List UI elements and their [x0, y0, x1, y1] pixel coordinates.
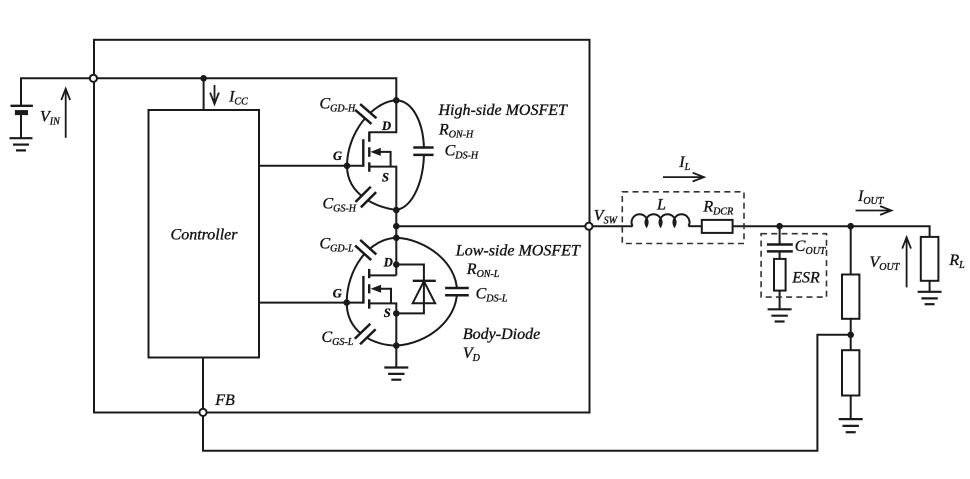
- node: output dot at Cout branch: [776, 223, 783, 230]
- resistor R_DCR: [702, 220, 733, 233]
- node: high-side gate dot: [344, 163, 351, 170]
- Q2 drain vertical: [395, 238, 397, 276]
- wire: output node to divider node: [780, 225, 851, 227]
- Q1 drain lead: [369, 100, 396, 132]
- pin: FB open circle on boundary: [199, 409, 206, 416]
- ground below battery: [10, 138, 33, 150]
- resistor R2 (divider bottom): [842, 350, 859, 395]
- svg-text:High-side MOSFET: High-side MOSFET: [438, 102, 569, 119]
- capacitor C_GD-L plates: [355, 240, 376, 260]
- Q1 channel bar segments: [368, 132, 370, 172]
- capacitor C_GS-H gap: [353, 184, 378, 209]
- capacitor C_GD-H gap: [353, 102, 379, 126]
- capacitor C_GD-L gap: [353, 238, 379, 263]
- dashed box around L and Rdcr: [622, 192, 744, 244]
- body diode D1 branch wiring: [396, 265, 424, 314]
- wire: RL to ground: [929, 281, 931, 292]
- Q2 bulk to source link: [380, 289, 391, 304]
- pin: Vin open circle on boundary: [90, 75, 97, 82]
- wire: Cout to ESR: [779, 251, 781, 259]
- node: low-side gate dot: [343, 299, 350, 306]
- svg-text:L: L: [656, 197, 666, 214]
- transistor Q2 low-side MOSFET package blob: [347, 238, 457, 346]
- resistor R1 (divider top): [842, 275, 859, 319]
- Q1 bulk to source link: [380, 152, 391, 167]
- wire: controller FB pin down: [202, 358, 204, 410]
- svg-text:G: G: [333, 149, 342, 163]
- wire: Vsw rail to low-side drain: [395, 226, 397, 238]
- wire: Icc tap down to controller: [203, 78, 205, 110]
- node: divider midpoint dot: [847, 332, 854, 339]
- inductor L coil: [632, 214, 690, 226]
- wire: coil to Rdcr: [689, 225, 702, 227]
- wire: FB feedback path to divider midpoint: [203, 335, 851, 451]
- Q1 gate bar: [362, 139, 364, 167]
- node: low-side blob bottom dot: [393, 342, 400, 349]
- node: low-side blob top dot: [393, 235, 400, 242]
- capacitor C_GS-H plates: [355, 187, 376, 208]
- node: Q2 drain diode tap dot: [393, 261, 400, 268]
- wire: controller to low-side gate: [259, 302, 363, 304]
- wire: Vsw pin to inductor: [593, 225, 633, 227]
- body diode D1 triangle: [413, 281, 435, 303]
- wire: Vin source to Vin pin: [21, 78, 90, 106]
- wire: divider node to RL: [851, 226, 930, 237]
- arrow I_L (right): [663, 173, 704, 182]
- battery V_IN negative plate: [15, 110, 28, 115]
- node: junction dot Icc tap: [200, 75, 207, 82]
- Q2 source lead: [369, 303, 396, 345]
- svg-text:D: D: [381, 119, 391, 133]
- svg-text:G: G: [333, 287, 342, 301]
- svg-text:FB: FB: [214, 392, 235, 409]
- wire: Q2 source to ground: [395, 346, 397, 368]
- wire: R2 to ground: [850, 396, 852, 420]
- capacitor C_OUT plates: [767, 245, 793, 252]
- wire: Cout branch down: [779, 226, 781, 244]
- resistor ESR: [774, 259, 786, 291]
- svg-text:Controller: Controller: [171, 227, 239, 244]
- dashed box around Cout and ESR: [761, 234, 826, 297]
- svg-text:Low-side MOSFET: Low-side MOSFET: [455, 243, 581, 260]
- wire: Q1 source to Vsw rail: [395, 210, 397, 226]
- node: high-side source dot (ellipse bottom): [393, 207, 400, 214]
- wire: battery to ground: [20, 115, 22, 138]
- wire: Vin rail (pin to high-side drain drop): [97, 78, 396, 100]
- capacitor C_DS-L plates: [445, 288, 469, 295]
- ground below divider: [839, 419, 863, 432]
- capacitor C_DS-H plates: [413, 148, 433, 155]
- node: Vsw junction dot: [393, 223, 400, 230]
- svg-text:S: S: [382, 171, 389, 185]
- wire: divider node down to R1: [850, 226, 852, 274]
- converter boundary box: [94, 40, 590, 413]
- svg-text:Body-Diode: Body-Diode: [463, 326, 540, 343]
- arrow I_CC (down): [210, 85, 219, 104]
- capacitor C_GS-L gap: [352, 321, 378, 346]
- resistor R_L: [921, 237, 939, 281]
- ground below low-side MOSFET: [384, 368, 408, 380]
- arrow V_IN (up): [61, 89, 70, 138]
- wire: Rdcr to output node: [733, 225, 780, 227]
- Q2 drain lead: [369, 274, 396, 276]
- Q2 channel bar segments: [368, 269, 370, 309]
- battery V_IN positive plate: [11, 105, 33, 107]
- controller U1 box: [149, 110, 260, 358]
- pin: Vsw open circle on boundary: [585, 223, 592, 230]
- node: high-side drain dot (ellipse top): [393, 97, 400, 104]
- ground below RL: [918, 292, 942, 304]
- body diode D1 cathode bar: [413, 280, 436, 282]
- svg-text:ESR: ESR: [791, 270, 820, 287]
- wire: controller to high-side gate: [259, 165, 363, 167]
- Q1 source lead: [369, 167, 396, 210]
- capacitor C_GS-L plates: [355, 324, 376, 344]
- node: Q2 source diode tap dot: [393, 310, 400, 317]
- wire: R1 to R2: [850, 319, 852, 350]
- svg-text:D: D: [383, 256, 393, 270]
- svg-text:S: S: [384, 306, 391, 320]
- arrow I_OUT (right): [856, 206, 892, 215]
- capacitor C_DS-H gap: [410, 147, 436, 156]
- wire: ESR to ground: [779, 291, 781, 310]
- Q2 gate bar: [362, 276, 364, 304]
- node: output dot at divider branch: [847, 223, 854, 230]
- capacitor C_GD-H plates: [355, 104, 376, 124]
- capacitor C_DS-L gap: [444, 287, 470, 296]
- Q1 bulk arrow (filled): [370, 148, 381, 156]
- arrow V_OUT (up): [902, 237, 911, 287]
- transistor Q1 high-side MOSFET package ellipse: [347, 100, 424, 210]
- ground below ESR: [768, 309, 792, 321]
- Q2 bulk arrow (filled): [371, 285, 382, 293]
- wire: Vsw rail to pin: [396, 225, 585, 227]
